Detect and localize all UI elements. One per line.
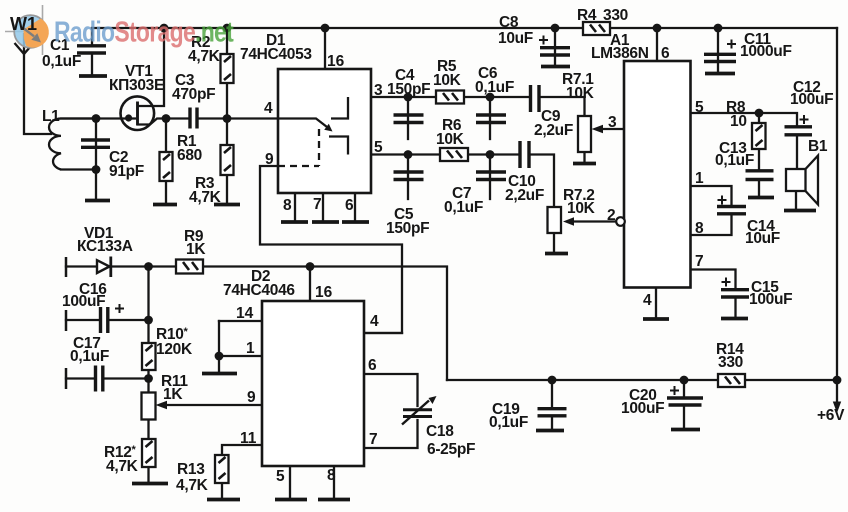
- +6V supply arrow: [817, 402, 845, 425]
- svg-text:4,7K: 4,7K: [176, 477, 209, 494]
- svg-text:16: 16: [315, 284, 333, 301]
- junction C4 on pin3 line: [404, 93, 413, 102]
- wire C4 branch below pin3 line: [407, 97, 409, 139]
- wire R1 vertical branch: [165, 119, 167, 204]
- ground: [312, 220, 339, 224]
- svg-text:14: 14: [236, 305, 254, 322]
- junction C17 R11 bus: [144, 374, 153, 383]
- inductor L1: [42, 108, 96, 170]
- IC D2 74HC4046: [223, 268, 364, 466]
- wire C1 bottom lead: [91, 53, 93, 75]
- wire D1 pin7 ground lead: [322, 193, 324, 221]
- wire left bus VD1 node down to R12: [147, 267, 149, 483]
- svg-text:C18: C18: [426, 423, 454, 440]
- wire A1 pin1 to C14: [691, 186, 732, 206]
- node L1 C2 gate: [92, 114, 101, 123]
- junction L1 C2 bottom: [92, 165, 101, 174]
- svg-text:74HC4053: 74HC4053: [240, 46, 312, 63]
- speaker B1: [786, 138, 828, 205]
- capacitor C14: [717, 196, 780, 248]
- ground: [275, 498, 307, 502]
- svg-text:100uF: 100uF: [621, 400, 664, 417]
- resistor R5: [433, 58, 464, 104]
- svg-text:16: 16: [327, 53, 345, 70]
- wire C20 ground lead: [683, 405, 685, 428]
- ground: [85, 199, 110, 203]
- capacitor C17: [66, 335, 109, 392]
- junction C19 bottom rail: [548, 376, 557, 385]
- resistor R6: [436, 117, 468, 161]
- junction D2 pin16 on R9 line: [306, 262, 315, 271]
- junction C8 at rail: [551, 24, 560, 33]
- capacitor C11: [704, 31, 792, 62]
- capacitor C7: [444, 172, 506, 216]
- svg-text:1K: 1K: [186, 241, 206, 258]
- capacitor C1: [42, 37, 106, 70]
- wire C16 input stub: [66, 319, 99, 321]
- ground: [202, 372, 237, 376]
- junction C16 bus: [144, 316, 153, 325]
- wire VD1 cathode to node: [111, 265, 176, 267]
- wire top supply rail left segment: [92, 27, 583, 29]
- svg-text:LM386N: LM386N: [591, 45, 649, 62]
- antenna W1 label: [10, 14, 37, 34]
- svg-text:5: 5: [695, 99, 704, 116]
- svg-text:100uF: 100uF: [749, 291, 792, 308]
- svg-text:1K: 1K: [163, 386, 183, 403]
- wire C7 branch below pin5 line: [489, 155, 491, 200]
- pin 2 bubble: [616, 217, 625, 226]
- capacitor C9: [531, 85, 573, 139]
- svg-text:6: 6: [345, 197, 354, 214]
- junction D1 pin16 at rail: [321, 24, 330, 33]
- ground: [207, 498, 240, 502]
- transistor VT1: [109, 63, 164, 130]
- resistor R4: [577, 7, 628, 35]
- svg-text:2,2uF: 2,2uF: [534, 122, 573, 139]
- svg-text:470pF: 470pF: [172, 86, 215, 103]
- ground: [671, 428, 700, 432]
- wire VT1 source to C3: [138, 119, 190, 125]
- wire C1 top lead from rail: [91, 28, 93, 45]
- resistor R14: [716, 341, 745, 387]
- junction C5 on pin5 line: [404, 150, 413, 159]
- diode VD1: [66, 225, 133, 277]
- svg-text:10: 10: [730, 113, 747, 130]
- wire D2 pin11 to R13: [222, 445, 262, 498]
- svg-text:150pF: 150pF: [386, 220, 429, 237]
- wire antenna down lead: [24, 53, 51, 134]
- capacitor C12: [785, 79, 834, 135]
- svg-text:9: 9: [265, 151, 274, 168]
- wire A1 pin6 lead: [656, 28, 658, 61]
- svg-text:6: 6: [368, 357, 377, 374]
- svg-text:91pF: 91pF: [109, 163, 144, 180]
- capacitor C15: [721, 278, 792, 309]
- pin labels D2: [236, 284, 379, 485]
- ground: [748, 196, 774, 200]
- wire B1 ground lead: [795, 191, 797, 209]
- ground: [721, 317, 748, 321]
- svg-text:4,7K: 4,7K: [106, 458, 139, 475]
- svg-text:0,1uF: 0,1uF: [489, 414, 528, 431]
- svg-text:74HC4046: 74HC4046: [223, 282, 295, 299]
- svg-text:0,1uF: 0,1uF: [715, 152, 754, 169]
- svg-text:9: 9: [247, 389, 256, 406]
- wire R7.1 wiper to A1 pin3: [603, 128, 624, 130]
- junction VD1 R9 bus: [144, 262, 153, 271]
- ground: [318, 498, 350, 502]
- svg-text:10K: 10K: [436, 131, 465, 148]
- svg-text:4: 4: [643, 292, 652, 309]
- wire C9 to R7.1 corner: [539, 97, 585, 162]
- ground: [643, 317, 669, 321]
- capacitor C6: [475, 65, 514, 123]
- wire D1 pin8 ground lead: [294, 193, 296, 221]
- switch inside D1: [278, 97, 348, 166]
- wire C5 branch below pin5 line: [407, 155, 409, 200]
- svg-text:RadioStorage.net: RadioStorage.net: [54, 15, 234, 48]
- wire A1 pin4 ground lead: [655, 288, 657, 319]
- resistor R12: [104, 439, 156, 475]
- IC D1 74HC4053: [240, 32, 371, 193]
- ground: [573, 162, 596, 166]
- wire C16 to bus: [108, 319, 149, 321]
- watermark logo text RadioStorage.net: [54, 15, 234, 48]
- wire C12 to B1 speaker: [796, 135, 798, 169]
- svg-text:2: 2: [607, 207, 616, 224]
- potentiometer R7.1: [562, 71, 603, 152]
- wire D2 pin16 lead: [309, 267, 311, 302]
- svg-text:R4: R4: [577, 7, 597, 24]
- wire A1 pin5 line: [691, 113, 798, 126]
- wire main input line L1 node to VT1 gate: [61, 117, 135, 119]
- junction VT1 drain at rail: [160, 24, 169, 33]
- svg-text:0,1uF: 0,1uF: [70, 348, 109, 365]
- pin labels A1: [607, 45, 704, 309]
- ground: [132, 482, 168, 486]
- resistor R2: [188, 34, 234, 83]
- wire D2 pin9 to R11 wiper: [167, 404, 262, 406]
- capacitor C3: [172, 72, 215, 129]
- resistor R10: [142, 326, 193, 370]
- junction A1 pin6 at rail: [653, 24, 662, 33]
- svg-text:0,1uF: 0,1uF: [42, 53, 81, 70]
- wire C15 ground lead: [734, 298, 736, 318]
- ground: [214, 203, 240, 207]
- junction C7 on pin5 line: [486, 150, 495, 159]
- wire C6 branch below pin3 line: [489, 97, 491, 139]
- wire D1 pin3 line to C9: [348, 96, 530, 98]
- svg-text:5: 5: [276, 468, 285, 485]
- pin labels D1: [264, 53, 383, 214]
- wire C11 branch from rail: [717, 28, 719, 72]
- capacitor C13: [715, 140, 774, 180]
- wire A1 pin7 to C15: [691, 270, 736, 290]
- ground: [705, 72, 735, 76]
- wire C10 to R7.2 corner: [529, 155, 554, 253]
- wire R8 C13 branch: [758, 113, 760, 170]
- svg-text:3: 3: [374, 82, 383, 99]
- ground: [545, 252, 568, 256]
- svg-text:C8: C8: [499, 14, 519, 31]
- wire C8 branch from rail: [554, 28, 556, 65]
- junction C11 at rail: [714, 24, 723, 33]
- wire C13 ground lead: [758, 180, 760, 197]
- junction R2 R3 pin4: [223, 114, 232, 123]
- junction R8 on pin5 wire: [755, 109, 764, 118]
- junction C6 on pin3 line: [486, 93, 495, 102]
- capacitor C5: [386, 172, 429, 237]
- resistor R1: [160, 133, 202, 181]
- svg-text:+6V: +6V: [817, 407, 845, 424]
- junction R1 source: [162, 114, 171, 123]
- resistor R9: [176, 228, 206, 274]
- svg-text:1: 1: [246, 340, 255, 357]
- svg-text:100uF: 100uF: [790, 91, 833, 108]
- wire D2 pin4 stub: [364, 332, 402, 334]
- wire D1 pin6 ground lead: [354, 193, 356, 221]
- IC A1 LM386N: [591, 32, 691, 288]
- wire C14 to A1 pin8: [691, 214, 732, 235]
- wire bottom supply rail right of R14: [745, 379, 837, 381]
- svg-text:КС133А: КС133А: [77, 238, 133, 255]
- capacitor C16: [62, 281, 124, 333]
- capacitor C4: [387, 67, 430, 123]
- svg-text:330: 330: [603, 7, 628, 24]
- svg-text:4: 4: [370, 313, 379, 330]
- ground: [784, 209, 816, 213]
- resistor R13: [176, 455, 229, 494]
- svg-text:120K: 120K: [156, 341, 193, 358]
- svg-text:4: 4: [264, 100, 273, 117]
- svg-text:7: 7: [695, 253, 704, 270]
- wire C17 to bus: [103, 377, 149, 379]
- wire C3 to D1 pin 4: [197, 117, 316, 119]
- svg-text:4,7K: 4,7K: [188, 48, 221, 65]
- wire C17 input stub: [66, 377, 94, 379]
- watermark globe icon: [5, 5, 49, 55]
- potentiometer R7.2: [548, 187, 596, 233]
- potentiometer R11: [142, 373, 189, 420]
- variable capacitor C18: [402, 396, 475, 458]
- ground: [79, 74, 107, 78]
- svg-text:КП303Е: КП303Е: [109, 77, 164, 94]
- wire D1 pin9 route to D2 pin4: [260, 166, 402, 333]
- wire C19 branch from bottom rail: [551, 380, 553, 408]
- resistor R8: [726, 99, 766, 149]
- wire R2 R3 vertical branch: [226, 28, 228, 203]
- wire D2 pin1 and tie to pin14: [219, 321, 262, 372]
- wire VT1 drain to rail: [138, 28, 164, 106]
- svg-text:10K: 10K: [567, 200, 596, 217]
- wire R9 line to corner and bottom rail: [202, 267, 447, 381]
- wire C19 ground lead: [551, 416, 553, 429]
- junction C20 bottom rail: [680, 376, 689, 385]
- svg-text:3: 3: [608, 114, 617, 131]
- svg-text:1: 1: [695, 170, 704, 187]
- ground: [153, 203, 177, 207]
- svg-text:1000uF: 1000uF: [740, 43, 792, 60]
- wire bottom supply rail left of R14: [447, 379, 718, 381]
- svg-text:8: 8: [695, 220, 704, 237]
- svg-text:0,1uF: 0,1uF: [444, 199, 483, 216]
- wire D2 pin14: [219, 320, 262, 322]
- svg-text:5: 5: [374, 139, 383, 156]
- wire VD1 input stub: [66, 265, 97, 267]
- ground: [281, 220, 308, 224]
- wire C20 branch from bottom rail: [683, 380, 685, 397]
- wire D1 pin5 line to C10: [348, 153, 520, 155]
- svg-text:10K: 10K: [566, 85, 595, 102]
- svg-text:W1: W1: [10, 14, 37, 34]
- svg-text:B1: B1: [808, 138, 828, 155]
- svg-text:6: 6: [661, 45, 670, 62]
- svg-text:8: 8: [283, 197, 292, 214]
- wire D2 pin7 to C18 bottom: [364, 420, 418, 448]
- svg-text:2,2uF: 2,2uF: [505, 187, 544, 204]
- svg-text:100uF: 100uF: [62, 293, 105, 310]
- svg-text:L1: L1: [42, 108, 60, 125]
- junction R2 at rail: [223, 24, 232, 33]
- svg-text:10uF: 10uF: [745, 230, 780, 247]
- svg-text:10K: 10K: [433, 72, 462, 89]
- svg-text:680: 680: [177, 147, 202, 164]
- junction D2 pin14 pin1 tie: [215, 352, 224, 361]
- wire right edge supply down: [836, 28, 838, 380]
- svg-text:0,1uF: 0,1uF: [475, 79, 514, 96]
- ground: [541, 65, 570, 69]
- wire L1 bottom to C2 node: [61, 168, 96, 170]
- svg-text:7: 7: [369, 431, 378, 448]
- ground: [536, 429, 564, 433]
- capacitor C8: [498, 14, 570, 55]
- wire C2 vertical branch: [95, 119, 97, 200]
- capacitor C20: [621, 386, 703, 417]
- wire +6V arrow lead: [836, 380, 838, 403]
- svg-text:10uF: 10uF: [498, 30, 533, 47]
- wire D1 pin16 lead: [324, 28, 326, 69]
- wire R7.2 wiper to A1 pin2 bubble: [574, 220, 616, 222]
- wire D2 pin6 to C18 top: [364, 374, 418, 406]
- svg-text:6-25pF: 6-25pF: [427, 441, 475, 458]
- svg-text:8: 8: [327, 467, 336, 484]
- resistor R3: [189, 145, 234, 206]
- svg-text:7: 7: [313, 196, 322, 213]
- ground: [342, 220, 369, 224]
- svg-text:11: 11: [240, 430, 257, 447]
- svg-text:R13: R13: [177, 461, 205, 478]
- wire top supply rail right segment: [610, 27, 837, 29]
- wire D2 pin5 ground lead: [289, 466, 291, 498]
- junction supply corner bottom right: [833, 376, 842, 385]
- svg-text:330: 330: [718, 354, 743, 371]
- antenna W1 mast: [15, 33, 34, 54]
- capacitor C10: [505, 141, 544, 204]
- capacitor C2: [81, 140, 144, 180]
- wire D2 pin8 ground lead: [333, 466, 335, 498]
- capacitor C19: [489, 401, 567, 431]
